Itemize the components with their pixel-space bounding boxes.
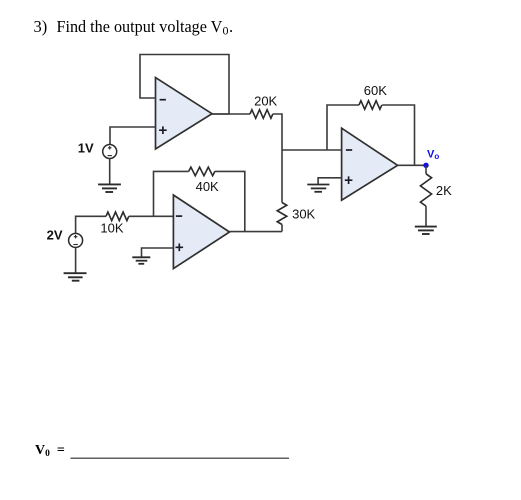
- wire U2 output: [230, 231, 283, 233]
- wire 40K feedback loop: [154, 171, 245, 231]
- answer blank line: [71, 457, 290, 459]
- wire 1V to ground: [109, 158, 111, 184]
- svg-text:V0 =: V0 =: [35, 443, 65, 459]
- wire 60K feedback loop: [327, 105, 415, 165]
- wire U3 output: [398, 164, 426, 166]
- wire 2V to ground: [75, 247, 77, 273]
- wire U1 noninverting input: [110, 127, 156, 145]
- resistor 60K: [359, 101, 382, 110]
- svg-text:1V: 1V: [78, 140, 94, 155]
- op-amp U2: [173, 195, 229, 269]
- voltage source 1V: [103, 145, 117, 159]
- wire node A to U3 inverting input: [282, 149, 342, 151]
- ground (2V): [64, 273, 87, 281]
- wire U1 feedback loop: [140, 55, 229, 115]
- svg-text:30K: 30K: [292, 207, 315, 222]
- wire U2 noninverting input to ground: [142, 248, 174, 257]
- ground (U3 +): [307, 185, 329, 192]
- wire U3 noninverting input to ground: [318, 178, 342, 185]
- resistor 40K: [189, 167, 215, 176]
- svg-text:0: 0: [223, 24, 229, 38]
- svg-text:60K: 60K: [364, 83, 387, 98]
- svg-text:Find the output voltage V: Find the output voltage V: [57, 17, 223, 36]
- op-amp U1: [156, 78, 213, 150]
- svg-text:3): 3): [34, 17, 48, 36]
- voltage source 2V: [69, 233, 83, 247]
- svg-text:Vo: Vo: [427, 149, 439, 162]
- svg-text:.: .: [229, 17, 233, 36]
- resistor 30K: [277, 203, 287, 225]
- resistor 10K: [106, 212, 129, 221]
- wire Vo to 2K: [425, 165, 427, 174]
- ground (U2 +): [132, 257, 150, 264]
- wire U1 output: [212, 113, 250, 115]
- ground (2K): [415, 227, 437, 234]
- svg-text:20K: 20K: [254, 94, 277, 109]
- wire 2K to ground: [425, 206, 427, 226]
- node Vo: [423, 163, 428, 168]
- svg-text:2V: 2V: [47, 228, 63, 243]
- wire 2V to 10K: [76, 216, 106, 233]
- wire 30K to U2 output rail: [281, 225, 283, 232]
- svg-text:10K: 10K: [100, 221, 123, 236]
- wire 10K to U2 inverting input: [129, 215, 174, 217]
- wire 20K to node A: [273, 114, 282, 203]
- ground (1V): [98, 184, 121, 192]
- resistor 2K: [420, 174, 431, 206]
- resistor 20K: [250, 110, 273, 119]
- svg-text:2K: 2K: [436, 183, 452, 198]
- op-amp U3: [342, 128, 398, 200]
- svg-text:40K: 40K: [196, 179, 219, 194]
- title: [34, 17, 234, 38]
